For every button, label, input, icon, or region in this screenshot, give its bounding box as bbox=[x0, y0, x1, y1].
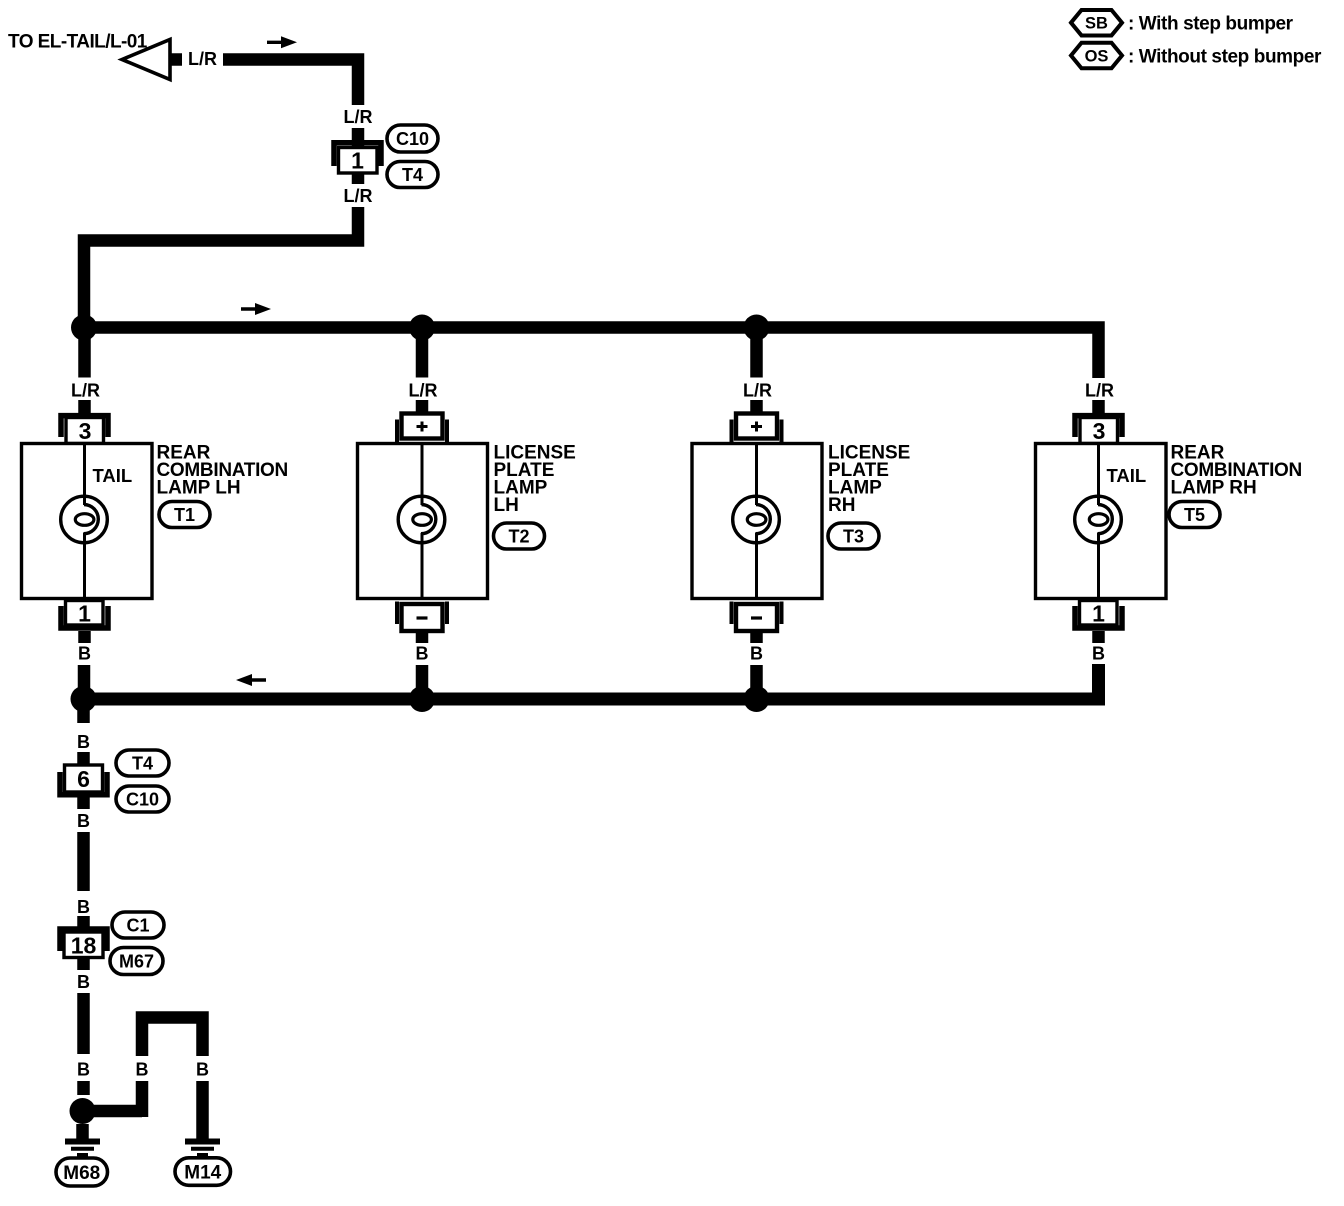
wire stub below connector pin 18 bbox=[77, 957, 90, 970]
svg-text:M67: M67 bbox=[119, 952, 154, 972]
connector bracket rear combination lamp RH T5 pin 1 bbox=[1075, 606, 1122, 628]
off-page triangle arrow bbox=[122, 40, 170, 80]
svg-text:B: B bbox=[77, 732, 90, 752]
ground symbol M68 bbox=[65, 1142, 100, 1156]
internal wire license plate lamp LH T2 bbox=[421, 444, 424, 506]
wire stub to ground junction bbox=[77, 1081, 90, 1095]
lamp body rear combination lamp RH T5 bbox=[1036, 444, 1167, 599]
wire: L/R drop to rear combination lamp LH T1 bbox=[78, 334, 91, 378]
svg-text:B: B bbox=[77, 811, 90, 831]
wire stub into connector T4/C10 bbox=[77, 752, 90, 767]
pin side ticks license plate lamp LH T2 bottom bbox=[395, 602, 399, 625]
bulb license plate lamp LH T2 bbox=[398, 496, 445, 543]
bulb license plate lamp RH T3 bbox=[733, 496, 780, 543]
label T4 (lower) bbox=[116, 750, 169, 776]
junction node: ground split bbox=[70, 1098, 96, 1124]
ref label T2 bbox=[494, 523, 545, 549]
wire stub at triangle bbox=[170, 53, 182, 66]
junction node: T3 ground bbox=[744, 686, 770, 712]
ref label T3 bbox=[828, 523, 879, 549]
wire: down and across to feed bus bbox=[84, 207, 358, 322]
svg-text:1: 1 bbox=[1092, 601, 1105, 627]
svg-text:T4: T4 bbox=[132, 754, 153, 774]
svg-text:L/R: L/R bbox=[1085, 381, 1114, 401]
wire: L/R feed from EL-TAIL/L-01 bbox=[223, 60, 358, 106]
svg-text:B: B bbox=[1092, 644, 1105, 664]
pin 3 box of rear combination lamp RH T5 bbox=[1080, 418, 1118, 445]
svg-text:B: B bbox=[77, 972, 90, 992]
svg-text:B: B bbox=[136, 1060, 149, 1080]
svg-text:L/R: L/R bbox=[344, 107, 373, 127]
svg-text:L/R: L/R bbox=[409, 381, 438, 401]
pin + box of license plate lamp LH T2 bbox=[402, 414, 443, 439]
wire: L/R drop to license plate lamp RH T3 bbox=[750, 334, 763, 378]
pin side ticks license plate lamp LH T2 top bbox=[395, 420, 399, 444]
label M68 bbox=[56, 1158, 108, 1186]
svg-text:C10: C10 bbox=[396, 129, 429, 149]
wire: junction to M14 branch bbox=[83, 1105, 143, 1118]
pin side ticks license plate lamp RH T3 bottom bbox=[730, 602, 734, 625]
svg-text:LH: LH bbox=[494, 495, 519, 516]
wire stub to ground M68 bbox=[76, 1124, 89, 1141]
svg-text:TAIL: TAIL bbox=[1107, 465, 1147, 486]
wire: L/R drop to license plate lamp LH T2 bbox=[416, 334, 429, 378]
lamp body rear combination lamp LH T1 bbox=[22, 444, 153, 599]
lamp body license plate lamp RH T3 bbox=[692, 444, 822, 599]
connector bracket rear combination lamp LH T1 pin 3 bbox=[61, 416, 108, 437]
wire: T5 to ground bus bbox=[1092, 666, 1105, 699]
internal wire license plate lamp RH T3 bbox=[755, 444, 758, 506]
label C10 (lower) bbox=[116, 786, 169, 812]
svg-text:SB: SB bbox=[1085, 15, 1108, 33]
ground symbol M14 bbox=[185, 1142, 220, 1156]
svg-text:3: 3 bbox=[79, 418, 92, 444]
wire stub below ground bus bbox=[77, 705, 90, 723]
connector T4/C10 bracket bbox=[60, 772, 107, 795]
label C1 bbox=[112, 912, 164, 938]
wire: main harness B bbox=[77, 993, 90, 1054]
junction node: T1 ground bbox=[71, 686, 97, 712]
svg-text:T2: T2 bbox=[508, 527, 529, 547]
svg-text:C1: C1 bbox=[126, 916, 149, 936]
svg-text:TAIL: TAIL bbox=[93, 465, 133, 486]
connector T4/C10 pin 6 box bbox=[65, 765, 103, 792]
pin - box of license plate lamp LH T2 bbox=[402, 604, 443, 631]
connector C1/M67 bracket bbox=[60, 929, 107, 951]
bus: L/R feed (top horizontal) bbox=[84, 321, 1099, 378]
svg-text:OS: OS bbox=[1085, 47, 1109, 65]
svg-text:T5: T5 bbox=[1184, 505, 1205, 525]
wire stub into rear combination lamp RH T5 pin 3 bbox=[1092, 400, 1105, 416]
pin 1 box of rear combination lamp RH T5 bbox=[1080, 601, 1118, 627]
svg-text:3: 3 bbox=[1093, 418, 1106, 444]
wire: license plate lamp RH T3 to ground bus bbox=[750, 665, 763, 699]
svg-text:B: B bbox=[77, 1060, 90, 1080]
wire: M14 branch loop bbox=[142, 1018, 203, 1057]
pin 3 box of rear combination lamp LH T1 bbox=[66, 418, 104, 445]
label M14 bbox=[175, 1158, 231, 1186]
pin 1 box of rear combination lamp LH T1 bbox=[66, 601, 104, 627]
label T4 bbox=[387, 162, 438, 188]
svg-text:6: 6 bbox=[77, 766, 90, 792]
arrow: feed bus direction bbox=[241, 303, 271, 315]
svg-text:T1: T1 bbox=[174, 505, 195, 525]
name label license plate lamp LH T2 bbox=[494, 443, 576, 517]
connector C10/T4 bracket bbox=[334, 143, 381, 166]
label C10 bbox=[387, 125, 438, 152]
wire stub into license plate lamp LH T2 plus pin bbox=[416, 400, 429, 415]
wire: license plate lamp LH T2 to ground bus bbox=[416, 665, 429, 699]
wire stub below connector pin 6 bbox=[77, 797, 90, 809]
svg-text:L/R: L/R bbox=[344, 186, 373, 206]
svg-text:TO EL-TAIL/L-01: TO EL-TAIL/L-01 bbox=[8, 32, 148, 53]
junction node: T1 feed bbox=[71, 315, 97, 341]
svg-text:B: B bbox=[78, 644, 91, 664]
wire: T1 to ground bus bbox=[78, 665, 91, 699]
wire stub below rear combination lamp RH T5 pin 1 bbox=[1092, 631, 1105, 643]
svg-text:T3: T3 bbox=[843, 527, 864, 547]
svg-text:L/R: L/R bbox=[188, 49, 217, 69]
svg-text:LAMP RH: LAMP RH bbox=[1171, 478, 1257, 499]
svg-text:1: 1 bbox=[78, 601, 91, 627]
name label license plate lamp RH T3 bbox=[828, 443, 910, 517]
svg-text:B: B bbox=[416, 644, 429, 664]
connector bracket rear combination lamp LH T1 pin 1 bbox=[61, 606, 108, 628]
junction node: T2 ground bbox=[409, 686, 435, 712]
junction node: T2 feed bbox=[409, 315, 435, 341]
connector C1/M67 pin 18 box bbox=[64, 932, 103, 959]
pin + box of license plate lamp RH T3 bbox=[736, 414, 777, 439]
svg-text:RH: RH bbox=[828, 495, 855, 516]
svg-text:M14: M14 bbox=[184, 1162, 221, 1183]
lamp body license plate lamp LH T2 bbox=[358, 444, 488, 599]
pin side ticks license plate lamp RH T3 top bbox=[730, 420, 734, 444]
svg-text:C10: C10 bbox=[126, 790, 159, 810]
label M67 bbox=[110, 948, 163, 975]
svg-text:B: B bbox=[750, 644, 763, 664]
arrow: ground bus direction bbox=[236, 674, 266, 686]
internal wire rear combination lamp RH T5 bbox=[1097, 444, 1100, 506]
name label rear combination lamp RH T5 bbox=[1171, 443, 1302, 499]
wire stub into rear combination lamp LH T1 pin 3 bbox=[78, 400, 91, 416]
svg-text:: Without step bumper: : Without step bumper bbox=[1128, 47, 1322, 68]
svg-text:: With step bumper: : With step bumper bbox=[1128, 14, 1294, 35]
wire stub below license plate lamp RH T3 minus pin bbox=[750, 631, 763, 643]
bulb rear combination lamp LH T1 bbox=[61, 496, 108, 543]
svg-text:B: B bbox=[196, 1060, 209, 1080]
connector C10/T4 pin 1 box bbox=[339, 148, 378, 174]
svg-text:B: B bbox=[77, 897, 90, 917]
legend symbol OS bbox=[1071, 43, 1122, 69]
svg-text:L/R: L/R bbox=[71, 381, 100, 401]
wire stub into connector C10/T4 bbox=[352, 128, 365, 146]
wire: M14 branch left leg (lower) bbox=[136, 1081, 149, 1117]
pin - box of license plate lamp RH T3 bbox=[736, 604, 777, 631]
svg-text:LAMP LH: LAMP LH bbox=[157, 478, 241, 499]
wire stub into connector C1/M67 bbox=[77, 916, 90, 930]
bus: ground return (bottom horizontal) bbox=[84, 664, 1099, 699]
wire stub below connector C10/T4 bbox=[352, 172, 365, 184]
ref label T5 bbox=[1169, 502, 1220, 528]
svg-text:18: 18 bbox=[71, 933, 97, 959]
svg-text:T4: T4 bbox=[402, 165, 423, 185]
svg-text:1: 1 bbox=[351, 148, 364, 174]
name label rear combination lamp LH T1 bbox=[157, 443, 288, 499]
svg-text:L/R: L/R bbox=[743, 381, 772, 401]
junction node: T3 feed bbox=[744, 315, 770, 341]
svg-text:M68: M68 bbox=[63, 1163, 100, 1184]
arrow: feed direction (top left) bbox=[267, 36, 297, 48]
bulb rear combination lamp RH T5 bbox=[1075, 496, 1122, 543]
wire: M14 branch right leg to ground bbox=[196, 1081, 209, 1141]
wire stub below license plate lamp LH T2 minus pin bbox=[416, 631, 429, 643]
connector bracket rear combination lamp RH T5 pin 3 bbox=[1075, 416, 1122, 437]
wire: body harness B bbox=[77, 832, 90, 891]
wire stub into license plate lamp RH T3 plus pin bbox=[750, 400, 763, 415]
internal wire rear combination lamp LH T1 bbox=[83, 444, 86, 506]
wire stub below rear combination lamp LH T1 pin 1 bbox=[78, 631, 91, 643]
legend symbol SB bbox=[1071, 10, 1122, 36]
ref label T1 bbox=[159, 502, 210, 528]
